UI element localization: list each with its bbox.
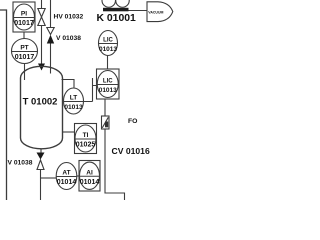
- wire CV line down and elbow right: [105, 129, 125, 200]
- wire drain pipe to bottom edge: [40, 170, 42, 201]
- svg-text:K 01001: K 01001: [97, 13, 137, 24]
- wire pipe A lower: [41, 26, 43, 65]
- svg-text:01014: 01014: [80, 179, 100, 186]
- svg-text:V 01038: V 01038: [56, 35, 81, 42]
- instrument TI 01025: [75, 124, 97, 154]
- instrument LIC 01013 (circle): [99, 31, 118, 56]
- svg-text:LIC: LIC: [103, 79, 113, 85]
- wire branch to AT 01014: [41, 177, 57, 179]
- svg-text:01013: 01013: [64, 104, 83, 111]
- wire LT to LIC square: [84, 78, 97, 102]
- svg-text:AT: AT: [62, 170, 70, 177]
- instrument AI 01014: [79, 161, 100, 192]
- off-page connector VACUUM flag: [147, 2, 173, 22]
- svg-text:V 01038: V 01038: [8, 160, 33, 167]
- svg-text:01013: 01013: [99, 87, 117, 94]
- svg-text:TI: TI: [83, 132, 89, 139]
- instrument PT 01017: [12, 39, 38, 64]
- instrument AT 01014: [56, 163, 77, 190]
- svg-text:AI: AI: [86, 170, 93, 177]
- rotameter CV 01016 body: [102, 116, 110, 129]
- instrument LT 01013: [64, 88, 84, 114]
- wire vessel bottom nozzle: [40, 149, 42, 153]
- valve V 01038 (bottom outlet): [37, 153, 45, 160]
- wire pipe B lower: [50, 44, 52, 74]
- svg-text:01025: 01025: [76, 142, 96, 149]
- svg-text:VACUUM: VACUUM: [148, 10, 163, 14]
- vessel T 01002: [21, 66, 63, 149]
- svg-text:01017: 01017: [15, 54, 35, 61]
- wire LIC circle to LIC square: [107, 56, 109, 70]
- svg-text:CV 01016: CV 01016: [112, 146, 150, 156]
- svg-text:LIC: LIC: [103, 38, 113, 44]
- svg-text:HV 01032: HV 01032: [54, 14, 84, 21]
- wire AT to AI: [77, 175, 79, 177]
- instrument PI 01017: [13, 2, 35, 32]
- arrow into vessel top: [38, 64, 45, 71]
- svg-text:T 01002: T 01002: [23, 97, 58, 108]
- wire left frame line: [0, 10, 7, 200]
- svg-text:PI: PI: [21, 11, 27, 18]
- svg-text:01017: 01017: [14, 20, 34, 27]
- compressor K 01001: [102, 0, 129, 7]
- valve V 01038 (upper): [47, 28, 54, 35]
- valve HV 01032: [38, 9, 45, 26]
- wire vessel top-right to LT: [62, 80, 75, 88]
- wire pipe A top: [41, 0, 43, 9]
- svg-text:01013: 01013: [99, 46, 117, 53]
- instrument LIC 01013 (shared display square): [97, 69, 120, 99]
- label VACUUM: [148, 10, 163, 14]
- wire PI to PT: [23, 32, 25, 39]
- wire vessel right to TI: [62, 131, 74, 133]
- svg-text:FO: FO: [128, 118, 137, 125]
- wire PT to vessel: [24, 63, 26, 80]
- svg-text:01014: 01014: [57, 179, 77, 186]
- svg-text:LT: LT: [70, 95, 77, 102]
- wire K 01001 to vacuum flag: [129, 10, 148, 12]
- wire LIC square down to positioner: [104, 99, 106, 116]
- wire pipe B top: [50, 0, 52, 28]
- svg-text:PT: PT: [20, 45, 28, 52]
